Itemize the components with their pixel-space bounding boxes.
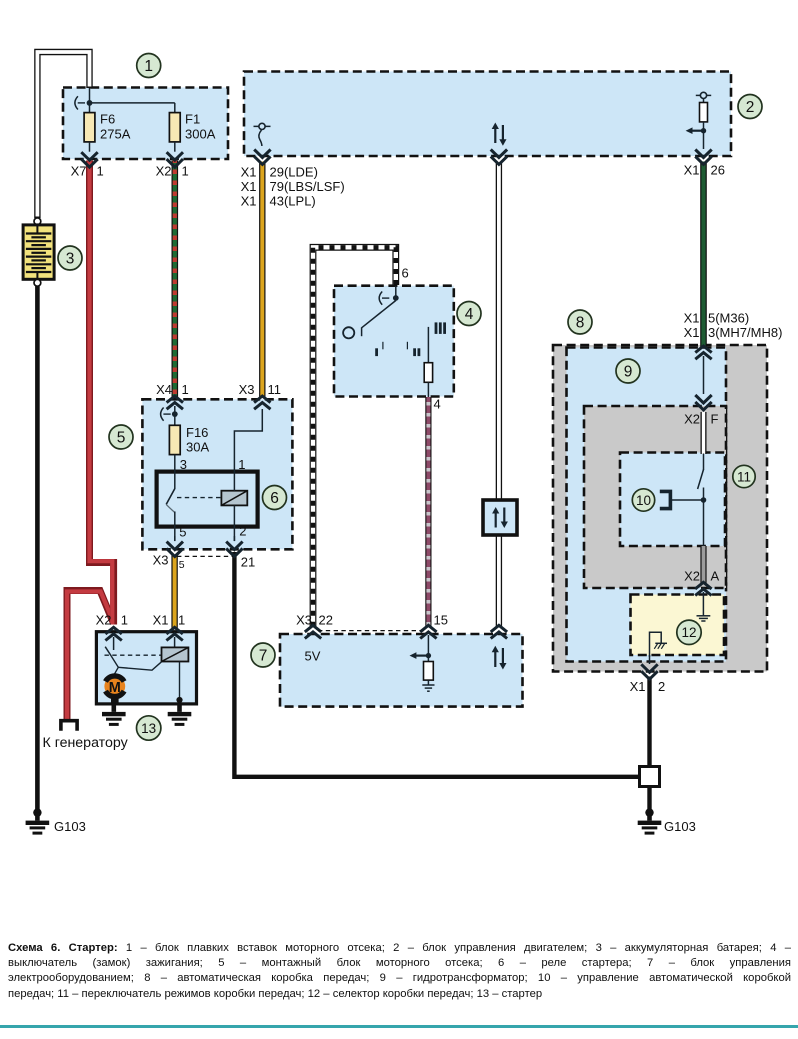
box1 node junction	[87, 88, 93, 106]
svg-text:1: 1	[182, 382, 189, 397]
connector entry gearbox X1 (top)	[695, 346, 711, 394]
svg-text:4: 4	[465, 306, 474, 323]
connector exit X2 pin 1	[167, 142, 183, 167]
callout circle 4	[457, 302, 481, 326]
fuse F1 300A	[169, 113, 180, 142]
relay pin5 wire	[174, 512, 176, 542]
svg-text:M: M	[109, 680, 121, 696]
svg-text:X3: X3	[239, 382, 255, 397]
connector entry X3-22 (5V)	[305, 625, 321, 638]
callout circle 3	[58, 246, 82, 270]
svg-text:X1: X1	[241, 179, 257, 194]
wire ignition switch pin 6 to X3-22 (black-white hatched)	[313, 247, 396, 626]
X3 connector dashed link below box5	[177, 555, 233, 557]
svg-text:X1: X1	[684, 163, 700, 178]
svg-text:F16: F16	[186, 425, 208, 440]
svg-text:К генератору: К генератору	[43, 735, 129, 751]
fuse F16 30A	[169, 414, 180, 454]
ignition switch box 4	[334, 286, 454, 397]
svg-text:43(LPL): 43(LPL)	[270, 194, 316, 209]
svg-text:300A: 300A	[185, 127, 216, 142]
svg-text:X4: X4	[156, 382, 172, 397]
connector entry starter X2 pin 1	[105, 627, 121, 650]
gear mode switch box 11	[584, 406, 726, 588]
relay pin2 wire	[233, 505, 235, 541]
ECU left-pointing arrow and node	[686, 127, 707, 134]
svg-text:F1: F1	[185, 112, 200, 127]
starter ground right	[168, 704, 192, 726]
relay pin1 wire	[234, 409, 262, 491]
svg-text:15: 15	[434, 613, 448, 628]
svg-text:22: 22	[319, 613, 333, 628]
junction box on ground wire	[640, 767, 660, 787]
wire battery negative to ground G103 (black)	[35, 286, 40, 813]
svg-text:21: 21	[241, 555, 255, 570]
svg-text:G103: G103	[54, 819, 86, 834]
svg-text:X2: X2	[684, 569, 700, 584]
svg-text:5: 5	[179, 525, 186, 540]
svg-text:1: 1	[178, 613, 185, 628]
connector entry X3 pin 11	[254, 396, 270, 409]
control bracket symbol 10	[660, 491, 671, 508]
box1 bus wire to F1	[90, 103, 175, 113]
svg-text:X1: X1	[630, 679, 646, 694]
svg-text:3: 3	[66, 251, 75, 268]
svg-text:11: 11	[737, 469, 751, 484]
svg-text:1: 1	[121, 613, 128, 628]
callout circle 6	[263, 486, 287, 510]
gear selector box 12	[631, 595, 725, 656]
wire X3-5 to starter X1-1 (yellow)	[171, 555, 177, 629]
callout circle 7	[251, 643, 275, 667]
svg-text:6: 6	[270, 490, 279, 507]
svg-text:8: 8	[576, 315, 585, 332]
relay contact lever	[166, 489, 175, 513]
wire X1-29 to X3-11 (yellow)	[259, 162, 265, 398]
box7 internal ground	[422, 685, 434, 691]
ignition position mark II	[407, 342, 420, 356]
fuse block box 1	[63, 88, 228, 160]
connector exit X1-26	[695, 133, 711, 164]
callout circle 9	[616, 359, 640, 383]
svg-text:30A: 30A	[186, 440, 209, 455]
connector entry pin 15	[420, 625, 436, 655]
wire branch to generator (red)	[67, 591, 114, 720]
svg-text:29(LDE): 29(LDE)	[270, 165, 318, 180]
box1 internal connector squiggle	[75, 96, 85, 109]
svg-text:1: 1	[144, 58, 153, 75]
transmission control inner box 10 enclosure	[620, 453, 725, 547]
svg-text:5: 5	[117, 430, 126, 447]
connector entry starter X1 pin 1	[166, 627, 182, 648]
transmission box 8 (automatic gearbox)	[553, 345, 767, 672]
wire battery to fuse block (white, double outline)	[37, 52, 89, 218]
svg-text:X1: X1	[684, 311, 700, 326]
connector exit X2-F	[695, 395, 711, 410]
callout circle 8	[568, 310, 592, 334]
relay mechanical dashed link	[177, 497, 221, 499]
white wire segment X2-F to contact	[701, 412, 707, 454]
connector entry X2-A	[695, 582, 711, 595]
svg-text:2: 2	[658, 679, 665, 694]
ignition switch node	[393, 286, 399, 301]
node and wire to control bracket	[672, 497, 707, 503]
battery terminal circle top	[34, 218, 41, 225]
control block box 7	[280, 634, 523, 707]
svg-text:9: 9	[624, 364, 633, 381]
starter mechanical dashed link	[105, 654, 162, 656]
svg-text:X2: X2	[96, 613, 112, 628]
svg-text:X2: X2	[156, 164, 172, 179]
starter motor M	[104, 676, 125, 697]
starter ground left	[102, 695, 126, 726]
engine control unit box 2	[244, 72, 731, 157]
wire ECU to control block (white, double outline)	[496, 162, 502, 627]
ignition switch lever	[362, 301, 396, 337]
callout circle 1	[137, 54, 161, 78]
svg-text:79(LBS/LSF): 79(LBS/LSF)	[270, 179, 345, 194]
relay pin3 wire	[174, 455, 176, 489]
interline connector box on white wire	[483, 500, 517, 535]
svg-text:G103: G103	[664, 819, 696, 834]
box7 internal resistor	[424, 656, 434, 685]
ignition position mark I	[375, 342, 383, 356]
wire X2-1 to X4-1 (green with red stripe)	[172, 161, 179, 398]
callout circle 2	[738, 95, 762, 119]
svg-text:5: 5	[179, 559, 185, 571]
box5 connector squiggle and node	[161, 408, 178, 421]
svg-text:X3: X3	[296, 613, 312, 628]
battery terminal circle bottom	[34, 279, 41, 286]
connector exit X3 pin 21	[226, 536, 242, 557]
box12 chassis ground symbol	[650, 632, 668, 657]
svg-text:26: 26	[711, 163, 725, 178]
svg-text:1: 1	[238, 457, 245, 472]
wire X3-21 to junction and ground G103 (black)	[234, 552, 649, 813]
mounting block box 5	[142, 399, 292, 549]
wire X7-1 to starter X2-1 (red)	[90, 161, 114, 625]
fuse F6 275A	[84, 105, 95, 142]
gear switch contact lever	[698, 454, 704, 547]
battery 3	[23, 225, 54, 279]
svg-text:X1: X1	[241, 194, 257, 209]
terminal to generator	[61, 721, 77, 731]
svg-text:F: F	[711, 412, 719, 427]
connector exit to white wire (middle)	[491, 150, 507, 165]
relay coil	[221, 491, 247, 506]
svg-text:5V: 5V	[305, 649, 321, 664]
connector exit X7 pin 1	[81, 142, 97, 167]
starter contact lever	[105, 647, 111, 656]
starter box 13	[96, 632, 196, 704]
svg-text:5(М36): 5(М36)	[708, 311, 749, 326]
ECU internal switch symbol (left)	[254, 123, 271, 146]
svg-text:X2: X2	[684, 412, 700, 427]
svg-text:X7: X7	[71, 164, 87, 179]
connector exit X1-29	[254, 150, 270, 165]
callout circle 10	[632, 489, 654, 511]
svg-text:1: 1	[182, 164, 189, 179]
hydrotransformer box 9	[567, 348, 727, 662]
svg-text:X1: X1	[241, 165, 257, 180]
wire X1-26 to gearbox (dark green)	[700, 162, 707, 348]
starter internal wires	[111, 656, 182, 703]
box7 node and left arrow	[410, 652, 432, 659]
ECU up-down arrows symbol (middle)	[492, 123, 507, 146]
callout circle 12	[677, 620, 701, 644]
svg-text:X1: X1	[153, 613, 169, 628]
gray wire segment to X2-A	[700, 546, 706, 583]
callout circle 13	[137, 716, 161, 740]
svg-text:3(МН7/МН8): 3(МН7/МН8)	[708, 325, 782, 340]
X3 connector dashed link above box7	[318, 630, 427, 632]
box12 internal ground	[697, 592, 711, 621]
relay box 6	[157, 472, 258, 527]
callout circle 5	[109, 425, 133, 449]
svg-text:2: 2	[239, 524, 246, 539]
ground G103 left	[26, 808, 50, 834]
svg-text:X3: X3	[153, 553, 169, 568]
connector exit X3 pin 5	[167, 536, 183, 557]
ignition internal resistor to pin 4	[424, 327, 432, 397]
svg-text:13: 13	[141, 721, 156, 736]
ECU internal resistor with terminal (right)	[696, 92, 711, 130]
svg-text:F6: F6	[100, 112, 115, 127]
ignition position mark III	[435, 322, 446, 334]
wire ignition pin 4 to pin 15 (violet with white stripe)	[425, 397, 431, 626]
svg-text:7: 7	[259, 648, 268, 665]
connector entry X4 pin 1	[167, 396, 183, 412]
ignition switch connector squiggle	[379, 292, 389, 305]
svg-text:11: 11	[268, 382, 282, 397]
box7 up-down arrows symbol	[492, 646, 507, 670]
svg-text:4: 4	[434, 397, 441, 412]
connector entry white wire into box7	[491, 625, 507, 638]
ground G103 right	[638, 808, 662, 834]
svg-text:12: 12	[681, 625, 696, 640]
callout circle 11	[733, 465, 755, 487]
svg-text:2: 2	[746, 99, 755, 116]
svg-text:X1: X1	[684, 325, 700, 340]
svg-text:275A: 275A	[100, 127, 131, 142]
svg-text:3: 3	[180, 457, 187, 472]
starter solenoid coil	[162, 647, 189, 661]
connector exit X1-2	[641, 655, 657, 679]
svg-text:6: 6	[402, 266, 409, 281]
svg-text:1: 1	[97, 164, 104, 179]
svg-text:A: A	[711, 569, 720, 584]
ignition lock circle	[343, 327, 354, 338]
svg-text:10: 10	[636, 493, 651, 508]
